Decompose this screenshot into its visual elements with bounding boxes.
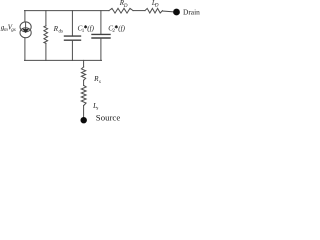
wire left branch bottom: [24, 38, 26, 61]
svg-text:s: s: [99, 80, 101, 85]
svg-text:gs: gs: [11, 28, 16, 33]
resistor Rs: [81, 67, 85, 80]
resistor RD: [109, 8, 133, 13]
svg-text:D: D: [123, 4, 128, 9]
inductor Ls: [81, 85, 86, 105]
wire Rds branch top: [45, 11, 47, 26]
label Rds: [53, 25, 63, 35]
svg-text:2: 2: [112, 29, 115, 34]
svg-text:1: 1: [82, 29, 85, 34]
node Source terminal dot: [81, 117, 87, 123]
capacitor C2: [92, 34, 110, 38]
label RD: [119, 0, 128, 9]
wire left branch top: [24, 11, 26, 22]
svg-text:Source: Source: [96, 112, 121, 122]
svg-text:s: s: [96, 107, 98, 112]
svg-text:Drain: Drain: [183, 8, 200, 17]
current source gmVgs: [20, 22, 31, 38]
inductor LD: [145, 8, 163, 13]
wire bottom rail: [25, 59, 102, 61]
wire C1 branch top: [71, 11, 73, 36]
svg-text:ds: ds: [59, 30, 64, 35]
wire C1 branch bottom: [71, 40, 73, 60]
wire LD to drain: [163, 10, 174, 13]
wire C2 branch top: [100, 11, 102, 35]
wire Ls to source: [83, 106, 85, 118]
node Drain terminal dot: [173, 9, 180, 16]
svg-text:D: D: [154, 4, 159, 9]
resistor Rds: [44, 26, 48, 44]
wire Rs branch top: [83, 60, 85, 67]
wire between RD and LD: [133, 10, 145, 12]
wire Rds branch bottom: [45, 43, 47, 60]
label LD: [151, 0, 159, 9]
label Ls: [92, 102, 98, 112]
capacitor C1: [65, 36, 81, 40]
wire between Rs and Ls: [83, 80, 85, 85]
label C2*(f): [108, 24, 125, 34]
label gm: [1, 23, 8, 33]
svg-text:(f): (f): [87, 25, 94, 33]
wire C2 branch bottom: [100, 38, 102, 60]
svg-text:(f): (f): [118, 25, 125, 33]
label C1*(f): [78, 24, 95, 34]
label Rs: [93, 75, 101, 85]
label Vgs: [8, 23, 16, 33]
wire top rail: [25, 10, 110, 12]
